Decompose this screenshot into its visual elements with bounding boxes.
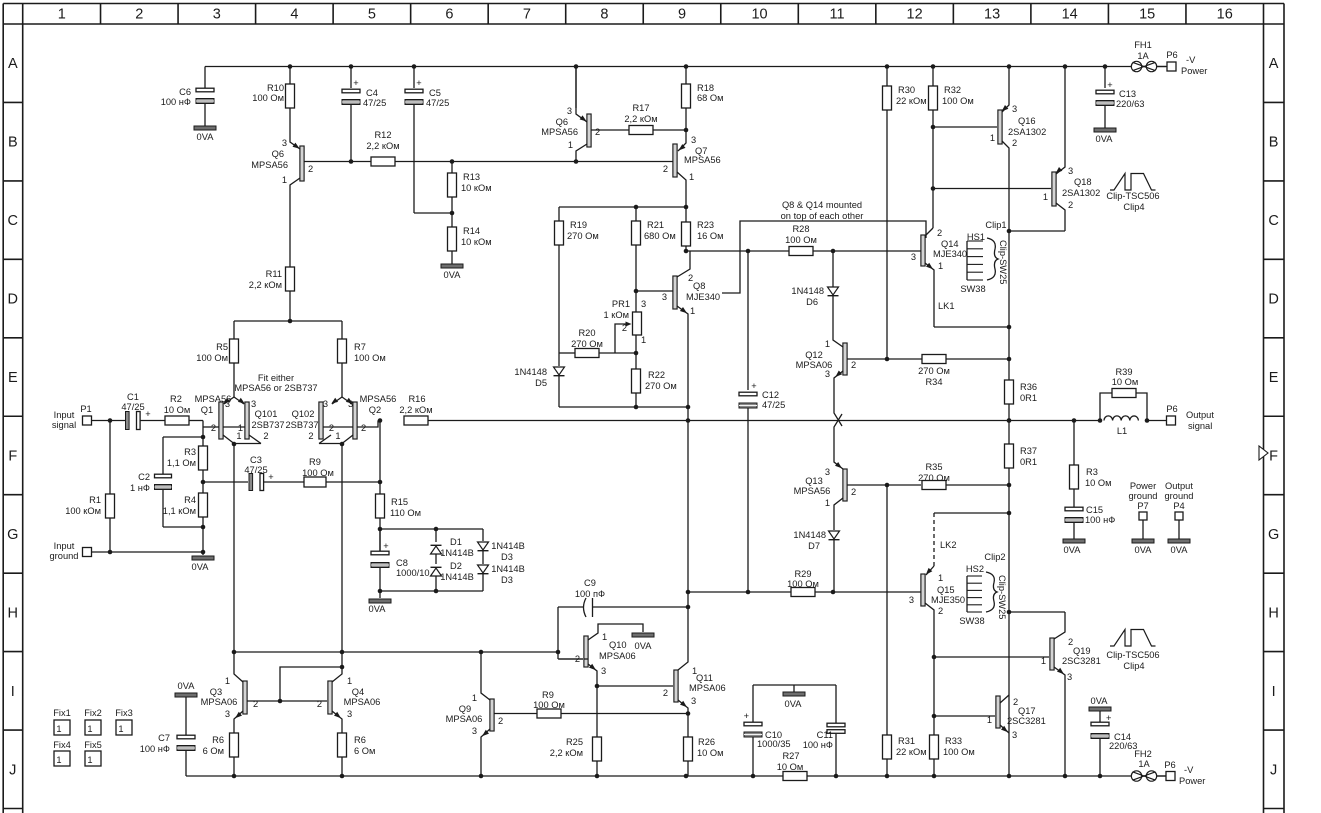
- svg-text:C12: C12: [762, 390, 779, 400]
- svg-text:220/63: 220/63: [1116, 99, 1144, 109]
- svg-text:R14: R14: [463, 226, 480, 236]
- svg-text:MPSA56: MPSA56: [360, 394, 397, 404]
- svg-text:ground: ground: [50, 551, 79, 561]
- svg-text:68 Ом: 68 Ом: [697, 93, 724, 103]
- svg-text:1: 1: [641, 335, 646, 345]
- svg-text:Q6: Q6: [556, 117, 568, 127]
- svg-text:100 Ом: 100 Ом: [785, 235, 817, 245]
- svg-text:1: 1: [56, 724, 61, 734]
- svg-text:1000/10: 1000/10: [396, 568, 430, 578]
- svg-text:A: A: [8, 56, 18, 72]
- svg-text:Clip4: Clip4: [1123, 202, 1144, 212]
- svg-text:11: 11: [830, 7, 845, 23]
- svg-text:2: 2: [317, 699, 322, 709]
- svg-text:3: 3: [472, 726, 477, 736]
- svg-text:2: 2: [851, 487, 856, 497]
- svg-text:MPSA06: MPSA06: [344, 697, 381, 707]
- svg-text:MPSA06: MPSA06: [446, 714, 483, 724]
- svg-text:R17: R17: [632, 103, 649, 113]
- svg-text:ground: ground: [1129, 491, 1158, 501]
- svg-text:1: 1: [58, 7, 66, 23]
- svg-text:C11: C11: [817, 730, 833, 740]
- svg-text:1: 1: [236, 431, 241, 441]
- svg-text:0VA: 0VA: [369, 604, 387, 614]
- svg-text:PR1: PR1: [612, 299, 630, 309]
- svg-text:3: 3: [662, 292, 667, 302]
- svg-text:10 кОм: 10 кОм: [461, 183, 492, 193]
- svg-text:0VA: 0VA: [1096, 134, 1114, 144]
- svg-text:Q19: Q19: [1073, 646, 1091, 656]
- svg-text:10 Ом: 10 Ом: [164, 405, 191, 415]
- svg-text:1: 1: [990, 133, 995, 143]
- svg-text:R35: R35: [925, 462, 942, 472]
- svg-text:0VA: 0VA: [1135, 545, 1153, 555]
- svg-text:R9: R9: [542, 690, 554, 700]
- svg-text:C13: C13: [1119, 89, 1136, 99]
- svg-text:Q4: Q4: [352, 687, 364, 697]
- svg-text:F: F: [1269, 448, 1278, 464]
- svg-text:47/25: 47/25: [121, 402, 144, 412]
- svg-text:2: 2: [308, 431, 313, 441]
- svg-text:F: F: [8, 448, 17, 464]
- svg-text:3: 3: [225, 709, 230, 719]
- svg-text:+: +: [751, 381, 756, 391]
- svg-text:C: C: [8, 213, 18, 229]
- svg-text:1: 1: [335, 431, 340, 441]
- svg-text:0VA: 0VA: [1171, 545, 1189, 555]
- svg-text:Q2: Q2: [369, 405, 381, 415]
- svg-text:1A: 1A: [1137, 51, 1149, 61]
- svg-text:+: +: [383, 541, 388, 551]
- svg-text:2: 2: [498, 716, 503, 726]
- svg-text:R30: R30: [898, 85, 915, 95]
- svg-text:MPSA56 or 2SB737: MPSA56 or 2SB737: [234, 383, 317, 393]
- svg-text:MJE340: MJE340: [933, 249, 967, 259]
- svg-text:R34: R34: [925, 377, 942, 387]
- svg-text:R21: R21: [647, 220, 664, 230]
- svg-text:2: 2: [1012, 138, 1017, 148]
- svg-text:1: 1: [282, 175, 287, 185]
- svg-text:2: 2: [253, 699, 258, 709]
- svg-text:C3: C3: [250, 455, 262, 465]
- svg-text:3: 3: [909, 595, 914, 605]
- svg-text:5: 5: [368, 7, 376, 23]
- svg-text:R4: R4: [184, 495, 196, 505]
- svg-text:+: +: [145, 409, 150, 419]
- svg-text:10 Ом: 10 Ом: [1085, 478, 1112, 488]
- svg-text:-V: -V: [1184, 765, 1194, 775]
- svg-text:2,2 кОм: 2,2 кОм: [624, 114, 657, 124]
- svg-text:2,2 кОм: 2,2 кОм: [550, 748, 583, 758]
- svg-text:3: 3: [251, 399, 256, 409]
- svg-text:2SC3281: 2SC3281: [1062, 656, 1101, 666]
- svg-text:1: 1: [690, 306, 695, 316]
- svg-text:2: 2: [211, 423, 216, 433]
- svg-text:Q13: Q13: [805, 476, 823, 486]
- svg-text:16: 16: [1217, 7, 1233, 23]
- svg-text:Output: Output: [1186, 410, 1214, 420]
- svg-text:1N414B: 1N414B: [440, 548, 474, 558]
- svg-text:R3: R3: [184, 447, 196, 457]
- svg-text:100 Ом: 100 Ом: [252, 93, 284, 103]
- svg-text:Q102: Q102: [292, 409, 315, 419]
- svg-text:1,1 Ом: 1,1 Ом: [167, 458, 196, 468]
- svg-text:Q8 & Q14 mounted: Q8 & Q14 mounted: [782, 200, 862, 210]
- svg-text:P6: P6: [1164, 760, 1175, 770]
- svg-text:MPSA06: MPSA06: [599, 651, 636, 661]
- svg-text:Output: Output: [1165, 481, 1193, 491]
- svg-text:D2: D2: [450, 561, 462, 571]
- svg-text:R3: R3: [1086, 467, 1098, 477]
- svg-text:3: 3: [282, 138, 287, 148]
- svg-text:Q12: Q12: [805, 350, 823, 360]
- svg-text:R11: R11: [266, 269, 282, 279]
- svg-text:R2: R2: [170, 394, 182, 404]
- svg-text:0VA: 0VA: [197, 132, 215, 142]
- svg-text:9: 9: [678, 7, 686, 23]
- svg-text:SW38: SW38: [960, 284, 985, 294]
- svg-text:J: J: [1270, 762, 1277, 778]
- svg-text:MJE340: MJE340: [686, 292, 720, 302]
- svg-text:2: 2: [361, 423, 366, 433]
- svg-text:100 Ом: 100 Ом: [943, 747, 975, 757]
- svg-text:MPSA06: MPSA06: [201, 697, 238, 707]
- svg-text:1N414B: 1N414B: [491, 564, 525, 574]
- svg-text:2,2 кОм: 2,2 кОм: [366, 141, 399, 151]
- svg-text:C5: C5: [429, 88, 441, 98]
- svg-text:1: 1: [938, 573, 943, 583]
- svg-text:+: +: [416, 78, 421, 88]
- svg-text:270 Ом: 270 Ом: [918, 366, 950, 376]
- svg-text:Q101: Q101: [255, 409, 278, 419]
- svg-text:1N414B: 1N414B: [491, 541, 525, 551]
- svg-text:100 пФ: 100 пФ: [575, 589, 605, 599]
- svg-text:0VA: 0VA: [1091, 696, 1109, 706]
- svg-text:3: 3: [601, 666, 606, 676]
- svg-text:signal: signal: [52, 420, 76, 430]
- svg-text:14: 14: [1062, 7, 1078, 23]
- svg-text:1 кОм: 1 кОм: [604, 310, 629, 320]
- svg-text:P6: P6: [1166, 404, 1177, 414]
- svg-text:C4: C4: [366, 88, 378, 98]
- svg-text:2: 2: [1068, 200, 1073, 210]
- svg-text:2: 2: [663, 164, 668, 174]
- svg-text:10 Ом: 10 Ом: [777, 762, 804, 772]
- svg-text:2SC3281: 2SC3281: [1007, 716, 1046, 726]
- svg-text:22 кОм: 22 кОм: [896, 747, 927, 757]
- svg-text:7: 7: [523, 7, 531, 23]
- svg-text:+: +: [353, 78, 358, 88]
- svg-text:0VA: 0VA: [192, 562, 210, 572]
- svg-text:R37: R37: [1020, 446, 1037, 456]
- svg-text:C6: C6: [179, 87, 191, 97]
- svg-text:G: G: [7, 527, 18, 543]
- svg-text:I: I: [11, 684, 15, 700]
- svg-text:Q3: Q3: [210, 687, 222, 697]
- svg-text:270 Ом: 270 Ом: [571, 339, 603, 349]
- svg-text:P4: P4: [1173, 501, 1184, 511]
- svg-text:MPSA56: MPSA56: [195, 394, 232, 404]
- svg-text:R33: R33: [945, 736, 962, 746]
- svg-text:100 нФ: 100 нФ: [140, 744, 170, 754]
- svg-text:H: H: [1268, 605, 1278, 621]
- svg-text:47/25: 47/25: [426, 98, 449, 108]
- svg-text:R39: R39: [1115, 367, 1132, 377]
- svg-text:1N414B: 1N414B: [440, 572, 474, 582]
- svg-text:HS2: HS2: [966, 564, 984, 574]
- svg-text:R10: R10: [267, 83, 284, 93]
- svg-text:D7: D7: [808, 541, 820, 551]
- svg-text:3: 3: [1012, 104, 1017, 114]
- svg-text:2,2 кОм: 2,2 кОм: [249, 280, 282, 290]
- svg-text:3: 3: [691, 135, 696, 145]
- svg-text:R29: R29: [794, 569, 811, 579]
- svg-text:R12: R12: [374, 130, 391, 140]
- svg-text:12: 12: [907, 7, 923, 23]
- svg-text:1N4148: 1N4148: [514, 367, 547, 377]
- svg-text:R22: R22: [648, 370, 665, 380]
- svg-text:+: +: [1106, 713, 1111, 723]
- svg-text:0VA: 0VA: [178, 681, 196, 691]
- svg-text:110 Ом: 110 Ом: [390, 508, 421, 518]
- svg-text:100 Ом: 100 Ом: [942, 96, 974, 106]
- svg-text:2: 2: [938, 606, 943, 616]
- svg-text:3: 3: [1067, 672, 1072, 682]
- svg-text:2: 2: [851, 360, 856, 370]
- svg-text:MJE350: MJE350: [931, 595, 965, 605]
- svg-text:Fix1: Fix1: [53, 708, 71, 718]
- svg-text:0VA: 0VA: [1064, 545, 1082, 555]
- svg-text:-V: -V: [1186, 55, 1196, 65]
- svg-text:Q15: Q15: [937, 585, 955, 595]
- svg-text:FH2: FH2: [1134, 749, 1152, 759]
- svg-text:3: 3: [641, 299, 646, 309]
- svg-text:R15: R15: [391, 497, 408, 507]
- svg-text:4: 4: [290, 7, 298, 23]
- svg-text:R20: R20: [578, 328, 595, 338]
- svg-text:Q17: Q17: [1018, 706, 1036, 716]
- svg-text:MPSA06: MPSA06: [689, 683, 726, 693]
- svg-text:3: 3: [1068, 166, 1073, 176]
- svg-text:1: 1: [825, 498, 830, 508]
- svg-text:C2: C2: [138, 472, 150, 482]
- svg-text:1: 1: [689, 172, 694, 182]
- svg-text:I: I: [1272, 684, 1276, 700]
- svg-text:3: 3: [825, 467, 830, 477]
- svg-text:2: 2: [308, 164, 313, 174]
- svg-text:R7: R7: [354, 342, 366, 352]
- svg-text:Q10: Q10: [609, 640, 627, 650]
- svg-text:3: 3: [347, 709, 352, 719]
- svg-text:1000/35: 1000/35: [757, 739, 791, 749]
- svg-text:2: 2: [937, 228, 942, 238]
- svg-text:2SB737: 2SB737: [251, 420, 284, 430]
- svg-text:A: A: [1269, 56, 1279, 72]
- svg-text:R23: R23: [697, 220, 714, 230]
- svg-text:Input: Input: [54, 541, 75, 551]
- svg-text:P1: P1: [80, 404, 91, 414]
- svg-text:R6: R6: [212, 735, 224, 745]
- svg-text:R19: R19: [570, 220, 587, 230]
- svg-text:3: 3: [1012, 730, 1017, 740]
- svg-text:0R1: 0R1: [1020, 393, 1037, 403]
- svg-text:270 Ом: 270 Ом: [567, 231, 599, 241]
- svg-text:3: 3: [567, 106, 572, 116]
- svg-text:R26: R26: [698, 737, 715, 747]
- svg-text:Q16: Q16: [1018, 116, 1036, 126]
- svg-text:R5: R5: [216, 342, 228, 352]
- svg-text:LK2: LK2: [940, 540, 957, 550]
- svg-text:1: 1: [472, 693, 477, 703]
- svg-text:P6: P6: [1166, 50, 1177, 60]
- svg-text:2: 2: [329, 423, 334, 433]
- svg-text:1 нФ: 1 нФ: [130, 483, 150, 493]
- svg-text:R32: R32: [944, 85, 961, 95]
- svg-text:1: 1: [118, 724, 123, 734]
- svg-text:100 Ом: 100 Ом: [354, 353, 386, 363]
- svg-text:2: 2: [663, 688, 668, 698]
- svg-text:2: 2: [595, 127, 600, 137]
- svg-text:1: 1: [87, 755, 92, 765]
- svg-text:R28: R28: [792, 224, 809, 234]
- svg-text:Clip-TSC506: Clip-TSC506: [1106, 650, 1159, 660]
- svg-text:C7: C7: [158, 733, 170, 743]
- svg-text:10 Ом: 10 Ом: [697, 748, 724, 758]
- svg-text:HS1: HS1: [967, 232, 985, 242]
- svg-text:J: J: [9, 762, 16, 778]
- svg-text:100 Ом: 100 Ом: [196, 353, 228, 363]
- svg-text:Power: Power: [1181, 66, 1207, 76]
- svg-text:3: 3: [825, 369, 830, 379]
- svg-text:Fit either: Fit either: [258, 373, 294, 383]
- svg-text:3: 3: [691, 696, 696, 706]
- svg-text:R9: R9: [309, 457, 321, 467]
- svg-text:on top of each other: on top of each other: [781, 211, 864, 221]
- svg-text:270 Ом: 270 Ом: [645, 381, 677, 391]
- svg-text:1A: 1A: [1138, 759, 1150, 769]
- svg-text:R6: R6: [354, 735, 366, 745]
- svg-text:2: 2: [575, 654, 580, 664]
- svg-text:Q9: Q9: [459, 704, 471, 714]
- svg-text:6: 6: [445, 7, 453, 23]
- svg-text:H: H: [8, 605, 18, 621]
- svg-text:R1: R1: [89, 495, 101, 505]
- svg-text:E: E: [8, 370, 18, 386]
- svg-text:47/25: 47/25: [762, 400, 785, 410]
- svg-text:Clip1: Clip1: [985, 220, 1006, 230]
- svg-text:C: C: [1268, 213, 1278, 229]
- svg-text:P7: P7: [1137, 501, 1148, 511]
- svg-text:6 Ом: 6 Ом: [203, 746, 224, 756]
- svg-text:270 Ом: 270 Ом: [918, 473, 950, 483]
- svg-text:100 Ом: 100 Ом: [787, 579, 819, 589]
- svg-text:Input: Input: [54, 410, 75, 420]
- svg-text:1: 1: [56, 755, 61, 765]
- svg-text:220/63: 220/63: [1109, 741, 1137, 751]
- svg-text:R31: R31: [898, 736, 915, 746]
- svg-text:1: 1: [1043, 192, 1048, 202]
- svg-text:C1: C1: [127, 392, 139, 402]
- svg-text:3: 3: [348, 399, 353, 409]
- svg-text:0R1: 0R1: [1020, 457, 1037, 467]
- svg-text:ground: ground: [1165, 491, 1194, 501]
- svg-text:Q14: Q14: [941, 239, 959, 249]
- svg-text:D5: D5: [535, 378, 547, 388]
- svg-text:2SA1302: 2SA1302: [1008, 127, 1046, 137]
- svg-text:Fix3: Fix3: [115, 708, 133, 718]
- svg-text:2,2 кОм: 2,2 кОм: [399, 405, 432, 415]
- svg-text:3: 3: [213, 7, 221, 23]
- svg-text:100 нФ: 100 нФ: [803, 740, 833, 750]
- svg-text:0VA: 0VA: [785, 699, 803, 709]
- svg-text:B: B: [8, 135, 18, 151]
- svg-text:1N4148: 1N4148: [791, 286, 824, 296]
- svg-text:Q6: Q6: [272, 149, 284, 159]
- svg-text:SW38: SW38: [959, 616, 984, 626]
- svg-text:Fix4: Fix4: [53, 740, 71, 750]
- svg-text:2: 2: [263, 431, 268, 441]
- svg-text:47/25: 47/25: [244, 465, 267, 475]
- svg-text:Clip4: Clip4: [1123, 661, 1144, 671]
- svg-text:0VA: 0VA: [444, 270, 462, 280]
- svg-text:1: 1: [225, 676, 230, 686]
- svg-text:Q18: Q18: [1074, 177, 1092, 187]
- svg-text:C9: C9: [584, 578, 596, 588]
- svg-text:Fix5: Fix5: [84, 740, 102, 750]
- svg-text:100 Ом: 100 Ом: [533, 700, 565, 710]
- svg-text:6 Ом: 6 Ом: [354, 746, 375, 756]
- svg-text:47/25: 47/25: [363, 98, 386, 108]
- svg-text:D: D: [8, 292, 18, 308]
- svg-text:2: 2: [135, 7, 143, 23]
- svg-text:MPSA56: MPSA56: [684, 155, 721, 165]
- svg-text:1: 1: [1041, 656, 1046, 666]
- svg-text:FH1: FH1: [1134, 40, 1152, 50]
- svg-text:+: +: [1107, 80, 1112, 90]
- svg-text:10: 10: [751, 7, 767, 23]
- svg-text:Fix2: Fix2: [84, 708, 102, 718]
- svg-text:10 Ом: 10 Ом: [1112, 377, 1139, 387]
- svg-text:1N4148: 1N4148: [793, 530, 826, 540]
- svg-text:B: B: [1269, 135, 1279, 151]
- svg-text:R13: R13: [463, 172, 480, 182]
- svg-text:L1: L1: [1117, 426, 1127, 436]
- svg-text:16 Ом: 16 Ом: [697, 231, 724, 241]
- svg-text:D: D: [1268, 292, 1278, 308]
- svg-text:3: 3: [911, 252, 916, 262]
- svg-text:10 кОм: 10 кОм: [461, 237, 492, 247]
- svg-text:8: 8: [600, 7, 608, 23]
- svg-text:2SA1302: 2SA1302: [1062, 188, 1100, 198]
- svg-text:Q1: Q1: [201, 405, 213, 415]
- svg-text:1: 1: [938, 261, 943, 271]
- svg-text:Power: Power: [1179, 776, 1205, 786]
- svg-text:D1: D1: [450, 537, 462, 547]
- svg-text:+: +: [744, 711, 749, 721]
- svg-text:Power: Power: [1130, 481, 1156, 491]
- svg-text:MPSA56: MPSA56: [541, 127, 578, 137]
- svg-text:100 нФ: 100 нФ: [1085, 515, 1115, 525]
- svg-text:0VA: 0VA: [635, 641, 653, 651]
- svg-text:100 кОм: 100 кОм: [65, 506, 101, 516]
- svg-text:Clip-SW25: Clip-SW25: [997, 575, 1007, 619]
- svg-text:D3: D3: [501, 552, 513, 562]
- svg-text:1: 1: [568, 140, 573, 150]
- svg-text:E: E: [1269, 370, 1279, 386]
- svg-text:1: 1: [602, 632, 607, 642]
- svg-text:C8: C8: [396, 558, 408, 568]
- svg-text:C15: C15: [1086, 505, 1103, 515]
